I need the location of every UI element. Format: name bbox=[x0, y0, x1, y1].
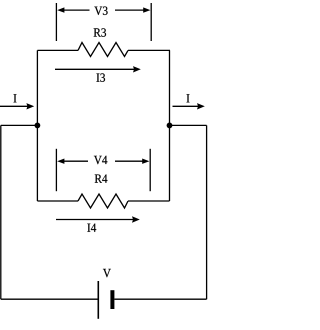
wire node B to right rail bbox=[170, 124, 207, 126]
V3 measure right bar bbox=[150, 3, 152, 41]
current arrow I4 bbox=[56, 219, 133, 221]
label V4 bbox=[94, 156, 107, 164]
V3 measure left bar bbox=[55, 3, 57, 41]
current arrow I3 bbox=[55, 68, 134, 70]
node B junction dot bbox=[167, 123, 173, 129]
label I right bbox=[187, 94, 190, 102]
wire bottom left bbox=[1, 298, 98, 300]
battery V long plate bbox=[97, 281, 99, 319]
wire left rail vertical bbox=[0, 125, 2, 299]
wire top-right segment bbox=[128, 49, 170, 51]
V3 right arrow bbox=[115, 9, 145, 11]
V4 left arrow bbox=[64, 160, 89, 162]
resistor R4 bbox=[78, 194, 128, 208]
wire right rail vertical bbox=[206, 125, 208, 299]
label V3 bbox=[94, 7, 107, 15]
current arrow I right bbox=[173, 105, 199, 107]
V4 measure left bar bbox=[55, 149, 57, 191]
wire right branch vertical bbox=[169, 50, 171, 201]
node A junction dot bbox=[35, 123, 41, 129]
V3 left arrow bbox=[64, 9, 90, 11]
label I4 bbox=[87, 224, 96, 232]
V4 measure right bar bbox=[149, 149, 151, 191]
V4 right arrow bbox=[115, 160, 144, 162]
wire left branch vertical bbox=[36, 50, 38, 201]
resistor R3 bbox=[78, 43, 128, 57]
current arrow I left bbox=[0, 105, 28, 107]
label R3 bbox=[94, 28, 106, 36]
label I left bbox=[14, 94, 17, 102]
label V battery bbox=[103, 269, 111, 277]
label R4 bbox=[95, 174, 108, 182]
label I3 bbox=[96, 73, 105, 81]
wire bottom right bbox=[114, 298, 206, 300]
wire bottom branch right segment bbox=[128, 200, 170, 202]
battery V short plate bbox=[110, 290, 114, 309]
wire node A to left rail bbox=[1, 124, 38, 126]
wire top-left segment bbox=[37, 49, 78, 51]
wire bottom branch left segment bbox=[37, 200, 78, 202]
